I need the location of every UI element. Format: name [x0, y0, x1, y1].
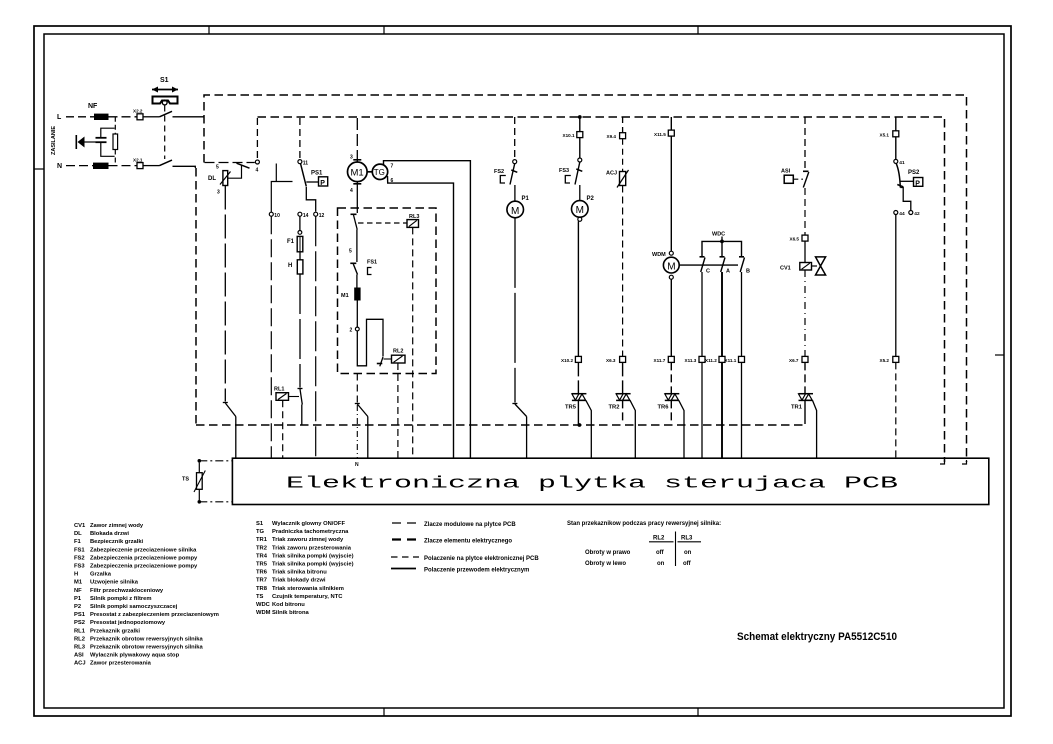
- svg-text:X6.3: X6.3: [606, 358, 616, 363]
- svg-text:Obroty w prawo: Obroty w prawo: [585, 550, 631, 556]
- svg-text:RL1: RL1: [274, 387, 284, 393]
- svg-text:Schemat elektryczny PA5512C51: Schemat elektryczny PA5512C510: [737, 631, 897, 643]
- wire M1 pin3: [353, 118, 361, 162]
- svg-text:X11.2: X11.2: [705, 358, 717, 363]
- svg-text:14: 14: [303, 213, 309, 219]
- svg-text:PS2: PS2: [908, 170, 920, 176]
- svg-text:X2.1: X2.1: [133, 158, 143, 163]
- node 12: [314, 212, 325, 219]
- svg-text:Elektroniczna plytka sterujaca: Elektroniczna plytka sterujaca PCB: [286, 475, 898, 494]
- svg-text:X10.2: X10.2: [561, 358, 573, 363]
- relay contact RL3 switch: [351, 214, 358, 229]
- connector X11.1: [725, 356, 745, 458]
- svg-text:TR8: TR8: [256, 586, 268, 592]
- svg-text:3: 3: [350, 155, 353, 161]
- module box inner dashed: [258, 117, 945, 464]
- connector X6.7: [789, 356, 808, 363]
- svg-text:off: off: [656, 550, 665, 556]
- relay RL1: [274, 387, 299, 459]
- svg-text:X11.7: X11.7: [654, 358, 666, 363]
- svg-text:WDC: WDC: [712, 232, 725, 238]
- junction dot P2-bus: [578, 115, 582, 119]
- svg-text:Triak zaworu przesterowania: Triak zaworu przesterowania: [272, 545, 352, 551]
- wire N to PCB: [356, 405, 358, 459]
- svg-text:Obroty w lewo: Obroty w lewo: [585, 561, 626, 567]
- wire M1 pin4 to module: [356, 182, 358, 213]
- svg-text:Przekaznik obrotow rewersyjnyc: Przekaznik obrotow rewersyjnych silnika: [90, 645, 204, 651]
- wire 12 to PCB: [315, 216, 317, 458]
- svg-text:RL2: RL2: [393, 349, 403, 355]
- svg-text:ASI: ASI: [74, 653, 84, 659]
- svg-text:Blokada drzwi: Blokada drzwi: [90, 531, 129, 537]
- svg-text:X6.5: X6.5: [790, 237, 800, 242]
- svg-text:M: M: [511, 206, 519, 217]
- legend column 1: [74, 523, 219, 667]
- PCB board box: [232, 458, 988, 504]
- svg-text:TG: TG: [256, 529, 265, 535]
- svg-text:X11.3: X11.3: [685, 358, 697, 363]
- svg-text:P: P: [320, 180, 325, 187]
- thermistor TS: [182, 459, 232, 504]
- connector X2.1: [133, 158, 143, 169]
- connector X11.2: [705, 356, 725, 458]
- svg-text:TS: TS: [256, 594, 264, 600]
- motor module dashed box: [338, 208, 437, 374]
- svg-text:on: on: [684, 550, 692, 556]
- switch P1-PCB: [512, 404, 526, 459]
- svg-text:off: off: [683, 561, 692, 567]
- svg-text:PS2: PS2: [74, 620, 85, 626]
- overload protector FS3: [559, 138, 582, 185]
- svg-text:5: 5: [216, 165, 219, 171]
- connector X10.1: [563, 117, 583, 138]
- wire PS1 feed: [299, 118, 301, 160]
- node 14: [298, 212, 309, 219]
- connector X6.3: [606, 356, 626, 363]
- svg-text:H: H: [288, 263, 292, 269]
- svg-text:Czujnik temperatury, NTC: Czujnik temperatury, NTC: [272, 594, 343, 600]
- connector X2.2: [133, 109, 143, 120]
- pressure switch PS2: [896, 163, 923, 187]
- svg-text:A: A: [726, 269, 730, 275]
- svg-text:TR4: TR4: [256, 553, 268, 559]
- wire C to X11.3: [701, 272, 703, 356]
- svg-text:CV1: CV1: [74, 523, 86, 529]
- relay contact RL2 switch: [377, 357, 383, 366]
- triac TR2: [609, 362, 636, 458]
- wire N: [66, 166, 195, 168]
- door lock DL: [208, 163, 250, 401]
- svg-text:TR1: TR1: [256, 537, 268, 543]
- svg-text:PS1: PS1: [311, 171, 323, 177]
- connector X9.4: [607, 133, 626, 139]
- svg-text:Silnik pompki samoczyszczacej: Silnik pompki samoczyszczacej: [90, 604, 178, 610]
- svg-text:TR5: TR5: [256, 562, 268, 568]
- svg-text:FS2: FS2: [74, 555, 85, 561]
- switch S1: [152, 77, 178, 166]
- fuse F1: [287, 236, 303, 259]
- svg-text:WDM: WDM: [652, 252, 666, 258]
- wire 41 to 42 jog: [900, 188, 911, 211]
- svg-text:S1: S1: [256, 521, 264, 527]
- svg-text:Zawor przesterowania: Zawor przesterowania: [90, 661, 152, 667]
- svg-text:Przekaznik obrotow rewersyjnyc: Przekaznik obrotow rewersyjnych silnika: [90, 636, 204, 642]
- pump motor P1: [507, 185, 530, 403]
- wire to DL contact 4: [205, 118, 258, 163]
- svg-text:L: L: [57, 114, 62, 121]
- switch DL-PCB: [223, 403, 236, 459]
- svg-text:41: 41: [899, 160, 905, 166]
- connector X5.2: [880, 356, 899, 458]
- relay RL2: [384, 349, 406, 459]
- svg-text:NF: NF: [74, 588, 82, 594]
- pressure switch PS1: [301, 164, 328, 187]
- svg-text:44: 44: [899, 211, 905, 217]
- motor winding M1: [341, 288, 361, 327]
- svg-text:Triak zaworu zimnej wody: Triak zaworu zimnej wody: [272, 537, 344, 543]
- svg-text:PS1: PS1: [74, 612, 86, 618]
- svg-text:7: 7: [391, 164, 394, 170]
- svg-text:X11.1: X11.1: [725, 358, 737, 363]
- relay state table: [567, 521, 721, 567]
- wire ACJ feed: [622, 117, 624, 133]
- svg-text:Zlacze elementu elektrycznego: Zlacze elementu elektrycznego: [424, 539, 512, 545]
- svg-text:Triak sterowania silnikiem: Triak sterowania silnikiem: [272, 586, 344, 592]
- legend column 2: [256, 521, 354, 616]
- wire L: [66, 116, 205, 118]
- relay RL3: [358, 214, 419, 459]
- bitron motor WDM: [652, 136, 679, 356]
- bitron code WDC: [702, 232, 742, 257]
- node L: [57, 114, 62, 121]
- svg-text:42: 42: [914, 211, 920, 217]
- node B: [746, 269, 750, 275]
- svg-text:N: N: [355, 462, 359, 468]
- svg-text:DL: DL: [208, 176, 216, 182]
- svg-text:Presostat jednopoziomowy: Presostat jednopoziomowy: [90, 620, 166, 626]
- drawing title: [737, 631, 897, 643]
- svg-text:RL2: RL2: [653, 536, 665, 542]
- tacho generator TG: [367, 164, 388, 179]
- svg-text:RL2: RL2: [74, 636, 85, 642]
- switch B: [739, 257, 745, 272]
- junction dot TR5-bus: [578, 423, 582, 427]
- svg-text:Triak silnika bitronu: Triak silnika bitronu: [272, 570, 327, 576]
- svg-text:S1: S1: [160, 77, 169, 84]
- svg-text:P: P: [915, 180, 920, 187]
- svg-text:TS: TS: [182, 477, 189, 483]
- pin 7: [391, 164, 394, 170]
- heater H: [288, 260, 303, 388]
- svg-text:Filtr przechwzakloceniowy: Filtr przechwzakloceniowy: [90, 588, 164, 594]
- svg-text:Polaczenie na plytce elektroni: Polaczenie na plytce elektronicznej PCB: [424, 556, 539, 562]
- svg-text:Kod bitronu: Kod bitronu: [272, 602, 305, 608]
- svg-text:Wylacznik glowny ON/OFF: Wylacznik glowny ON/OFF: [272, 521, 345, 527]
- svg-text:M: M: [667, 261, 675, 272]
- svg-text:TR6: TR6: [658, 405, 670, 411]
- node 44: [894, 211, 905, 218]
- svg-text:2: 2: [350, 328, 353, 334]
- svg-text:C: C: [706, 269, 710, 275]
- node 11: [298, 160, 308, 167]
- pump motor P2: [572, 185, 595, 356]
- filter NF: [88, 103, 118, 169]
- svg-text:B: B: [746, 269, 750, 275]
- cold water valve CV1: [780, 241, 826, 356]
- ground chassis symbol: [76, 135, 95, 149]
- svg-text:FS1: FS1: [367, 260, 377, 266]
- svg-text:3: 3: [217, 190, 220, 196]
- wire TG7 to PCB: [384, 161, 471, 459]
- wire winding loop: [357, 319, 383, 366]
- pin 4: [350, 184, 361, 194]
- wire 11 to 12 jog: [306, 187, 315, 212]
- svg-text:TR2: TR2: [256, 545, 267, 551]
- svg-text:M1: M1: [74, 580, 83, 586]
- connector X11.3: [685, 356, 706, 458]
- overload protector FS1: [350, 260, 377, 288]
- svg-text:M: M: [576, 205, 584, 216]
- svg-text:X6.7: X6.7: [789, 358, 799, 363]
- wire 44 to X5.2: [895, 215, 897, 357]
- svg-text:FS3: FS3: [74, 564, 85, 570]
- svg-text:Zlacze modulowe na plytce PCB: Zlacze modulowe na plytce PCB: [424, 522, 516, 528]
- motor M1: [348, 162, 368, 182]
- svg-text:X10.1: X10.1: [563, 133, 575, 138]
- svg-text:P2: P2: [74, 604, 81, 610]
- svg-text:Silnik bitrona: Silnik bitrona: [272, 610, 309, 616]
- svg-text:P2: P2: [587, 196, 595, 202]
- svg-text:TR1: TR1: [791, 405, 803, 411]
- svg-text:ASI: ASI: [781, 169, 791, 175]
- svg-text:WDM: WDM: [256, 610, 271, 616]
- svg-text:Triak silnika pompki (wyjscie): Triak silnika pompki (wyjscie): [272, 553, 354, 559]
- switch M1-N: [355, 404, 368, 459]
- svg-text:CV1: CV1: [780, 266, 791, 272]
- svg-text:M1: M1: [341, 293, 349, 299]
- wire contact 10 hook: [271, 164, 292, 213]
- svg-text:FS1: FS1: [74, 547, 85, 553]
- svg-text:F1: F1: [287, 239, 295, 245]
- triac TR1: [791, 362, 817, 458]
- svg-text:Zabezpieczenie przeciazeniowe: Zabezpieczenie przeciazeniowe silnika: [90, 547, 197, 553]
- wire ASI feed: [804, 117, 806, 170]
- svg-text:ACJ: ACJ: [74, 661, 86, 667]
- svg-text:ACJ: ACJ: [606, 171, 617, 177]
- svg-text:F1: F1: [74, 539, 82, 545]
- svg-text:Wylacznik plywakowy aqua stop: Wylacznik plywakowy aqua stop: [90, 653, 180, 659]
- svg-text:10: 10: [274, 213, 280, 219]
- svg-text:P1: P1: [522, 196, 530, 202]
- module box outer dashed: [204, 95, 967, 464]
- node 42: [909, 211, 920, 218]
- svg-text:Grzalka: Grzalka: [90, 572, 112, 578]
- svg-text:Triak blokady drzwi: Triak blokady drzwi: [272, 578, 326, 584]
- svg-text:Zawor zimnej wody: Zawor zimnej wody: [90, 523, 144, 529]
- wire TG6 to PCB: [388, 176, 454, 459]
- pin 3: [350, 155, 353, 161]
- svg-text:11: 11: [303, 161, 309, 167]
- overload protector FS2: [494, 160, 517, 185]
- svg-text:RL3: RL3: [681, 536, 693, 542]
- node 10: [269, 212, 280, 219]
- svg-text:DL: DL: [74, 531, 82, 537]
- svg-text:TR5: TR5: [565, 405, 577, 411]
- connector X5.1: [880, 117, 899, 137]
- svg-text:Silnik pompki z filtrem: Silnik pompki z filtrem: [90, 596, 152, 602]
- svg-text:RL1: RL1: [74, 628, 86, 634]
- switch A: [720, 257, 726, 272]
- svg-text:X5.1: X5.1: [880, 132, 890, 137]
- float switch ASI: [781, 169, 809, 236]
- svg-text:FS3: FS3: [559, 168, 569, 174]
- svg-text:Triak silnika pompki (wyjscie): Triak silnika pompki (wyjscie): [272, 562, 354, 568]
- svg-text:Presostat z zabezpieczeniem pr: Presostat z zabezpieczeniem przeciazenio…: [90, 612, 219, 618]
- connector X10.2: [561, 356, 581, 363]
- pin 5: [349, 249, 352, 255]
- wire N bus vertical: [195, 168, 197, 425]
- svg-text:5: 5: [349, 249, 352, 255]
- svg-text:4: 4: [350, 188, 353, 194]
- svg-text:H: H: [74, 572, 78, 578]
- node A: [726, 269, 730, 275]
- connector X11.7: [654, 356, 675, 363]
- svg-text:X2.2: X2.2: [133, 109, 143, 114]
- node 4: [255, 160, 259, 174]
- node N label: [355, 462, 359, 468]
- svg-text:NF: NF: [88, 103, 98, 110]
- legend line styles: [391, 522, 539, 574]
- triac TR6: [658, 362, 685, 458]
- svg-text:TR2: TR2: [609, 405, 620, 411]
- svg-text:Polaczenie przewodem elektrycz: Polaczenie przewodem elektrycznym: [424, 568, 529, 574]
- ZASILANIE label: [51, 126, 57, 155]
- wire A to X11.2: [721, 272, 723, 356]
- wire P1 feed: [514, 117, 516, 160]
- svg-text:TG: TG: [374, 168, 385, 177]
- svg-text:12: 12: [319, 213, 325, 219]
- wire 14 to F1: [298, 216, 302, 234]
- svg-text:FS2: FS2: [494, 169, 504, 175]
- svg-text:X9.4: X9.4: [607, 134, 617, 139]
- svg-text:4: 4: [256, 168, 259, 174]
- svg-text:ZASILANIE: ZASILANIE: [51, 126, 57, 155]
- switch C: [700, 257, 706, 272]
- svg-text:RL3: RL3: [74, 645, 86, 651]
- svg-text:WDC: WDC: [256, 602, 271, 608]
- connector X11.5: [654, 117, 674, 137]
- svg-text:M1: M1: [351, 168, 364, 179]
- node N: [57, 163, 62, 170]
- svg-text:TR6: TR6: [256, 570, 268, 576]
- wire RL3sw to FS1: [356, 230, 358, 263]
- svg-text:Stan przekaznikow podczas prac: Stan przekaznikow podczas pracy rewersyj…: [567, 521, 721, 527]
- triac TR5: [565, 362, 591, 458]
- svg-text:P1: P1: [74, 596, 82, 602]
- wire B to X11.1: [741, 272, 743, 356]
- relay contact RL1 switch: [298, 389, 303, 426]
- svg-text:Zabezpieczenia przeciazeniowe: Zabezpieczenia przeciazeniowe pompy: [90, 564, 198, 570]
- svg-text:Pradniczka tachometryczna: Pradniczka tachometryczna: [272, 529, 349, 535]
- valve ACJ: [606, 139, 629, 357]
- svg-text:Bezpiecznik grzalki: Bezpiecznik grzalki: [90, 539, 144, 545]
- wire WDM to switches: [679, 264, 738, 266]
- wire M1 to N switch: [356, 374, 358, 403]
- svg-text:N: N: [57, 163, 62, 170]
- svg-text:X5.2: X5.2: [880, 358, 890, 363]
- svg-text:TR7: TR7: [256, 578, 267, 584]
- node C: [706, 269, 710, 275]
- pin 2: [350, 327, 360, 333]
- svg-text:Przekaznik grzalki: Przekaznik grzalki: [90, 628, 140, 634]
- svg-text:Zabezpieczenia przeciazeniowe: Zabezpieczenia przeciazeniowe pompy: [90, 555, 198, 561]
- node 41: [894, 137, 905, 166]
- connector X6.5: [790, 235, 809, 241]
- svg-text:X11.5: X11.5: [654, 132, 666, 137]
- svg-text:Uzwojenie silnika: Uzwojenie silnika: [90, 580, 139, 586]
- wire N bus bottom: [196, 424, 806, 426]
- wire 10 to PCB: [270, 216, 272, 458]
- svg-text:on: on: [657, 561, 665, 567]
- pin 6: [391, 178, 394, 184]
